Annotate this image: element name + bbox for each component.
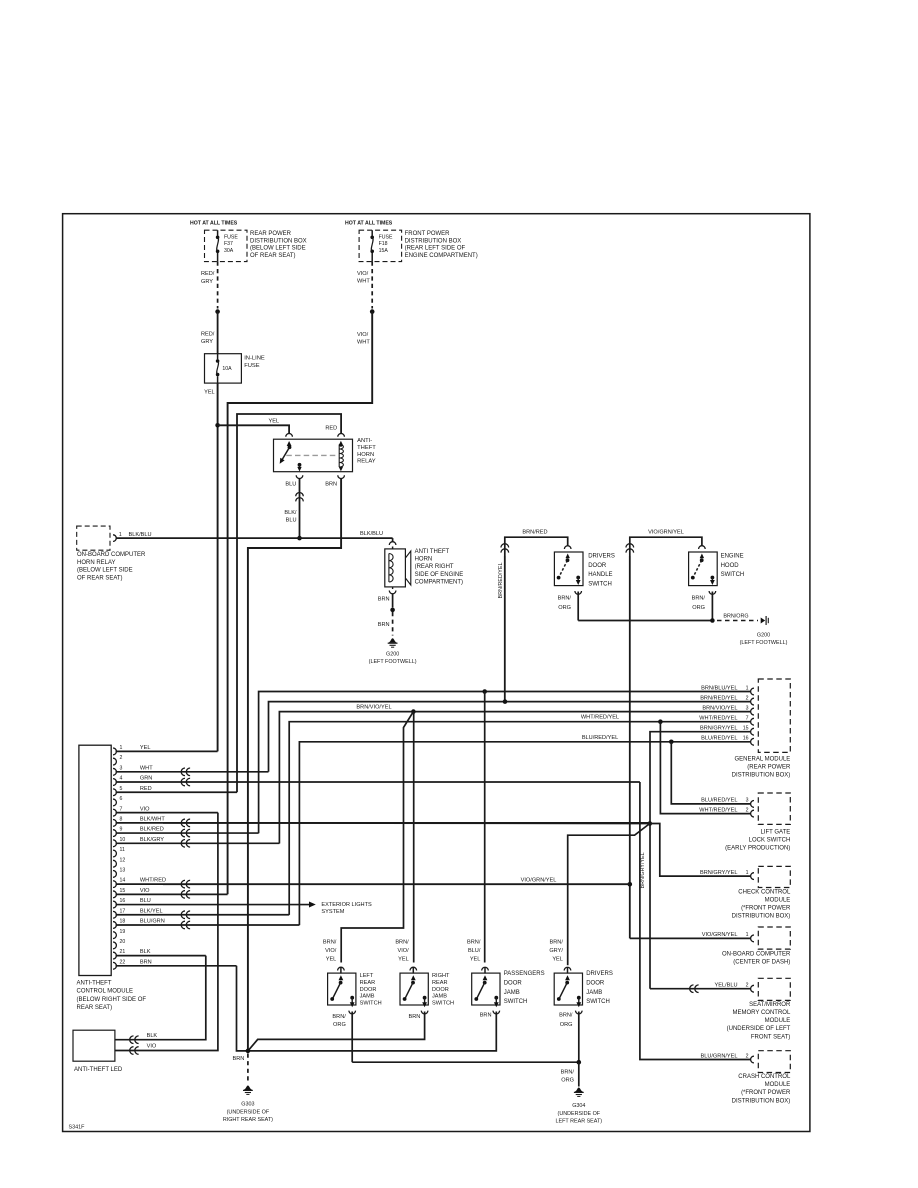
svg-text:SWITCH: SWITCH <box>360 1001 382 1007</box>
svg-text:VIO/GRN/YEL: VIO/GRN/YEL <box>521 877 557 883</box>
svg-text:(UNDERSIDE OF: (UNDERSIDE OF <box>558 1111 601 1117</box>
svg-text:BLK: BLK <box>140 949 151 955</box>
svg-text:BRN/: BRN/ <box>559 1013 573 1019</box>
svg-text:SWITCH: SWITCH <box>588 581 612 587</box>
svg-text:YEL/BLU: YEL/BLU <box>714 983 737 989</box>
svg-text:BRN/VIO/YEL: BRN/VIO/YEL <box>356 705 391 711</box>
svg-text:VIO/: VIO/ <box>357 271 369 277</box>
svg-text:FUSE: FUSE <box>244 363 260 369</box>
svg-text:(BELOW LEFT SIDE: (BELOW LEFT SIDE <box>77 568 133 574</box>
svg-text:19: 19 <box>120 929 126 935</box>
svg-text:CONTROL MODULE: CONTROL MODULE <box>77 989 133 995</box>
svg-text:BRN: BRN <box>378 622 390 628</box>
svg-text:BLK/BLU: BLK/BLU <box>360 531 383 537</box>
svg-text:BRN/: BRN/ <box>332 1014 346 1020</box>
svg-text:BRN: BRN <box>140 959 152 965</box>
svg-text:GENERAL MODULE: GENERAL MODULE <box>735 757 791 763</box>
svg-text:RED/: RED/ <box>201 332 215 338</box>
svg-text:CHECK CONTROL: CHECK CONTROL <box>738 889 791 895</box>
svg-text:1: 1 <box>746 870 749 876</box>
svg-text:VIO: VIO <box>147 1043 157 1049</box>
svg-text:OF REAR SEAT): OF REAR SEAT) <box>250 253 296 259</box>
svg-text:BRN/: BRN/ <box>323 939 337 945</box>
svg-text:HORN: HORN <box>357 452 374 458</box>
svg-text:YEL: YEL <box>204 390 215 396</box>
svg-text:BLU: BLU <box>286 518 297 524</box>
svg-text:YEL: YEL <box>269 418 280 424</box>
svg-text:JAMB: JAMB <box>504 990 520 996</box>
svg-text:F37: F37 <box>224 241 233 247</box>
svg-text:REAR: REAR <box>360 980 376 986</box>
svg-text:EXTERIOR LIGHTS: EXTERIOR LIGHTS <box>321 902 372 908</box>
svg-text:DISTRIBUTION BOX: DISTRIBUTION BOX <box>405 238 462 244</box>
svg-text:DOOR: DOOR <box>586 981 605 987</box>
svg-text:16: 16 <box>120 898 126 904</box>
svg-text:17: 17 <box>120 908 126 914</box>
svg-text:OF REAR SEAT): OF REAR SEAT) <box>77 575 123 581</box>
svg-text:BRN/: BRN/ <box>561 1070 575 1076</box>
svg-text:BLU/RED/YEL: BLU/RED/YEL <box>701 798 737 804</box>
svg-text:CRASH CONTROL: CRASH CONTROL <box>738 1074 791 1080</box>
svg-text:ENGINE COMPARTMENT): ENGINE COMPARTMENT) <box>405 253 478 259</box>
svg-text:ENGINE: ENGINE <box>721 554 744 560</box>
svg-text:ANTI-THEFT: ANTI-THEFT <box>77 981 112 987</box>
svg-text:1: 1 <box>746 685 749 691</box>
svg-text:VIO/: VIO/ <box>357 332 369 338</box>
svg-text:4: 4 <box>120 776 123 782</box>
svg-text:BRN/: BRN/ <box>395 939 409 945</box>
svg-text:BLU/GRN/YEL: BLU/GRN/YEL <box>701 1053 738 1059</box>
svg-text:DRIVERS: DRIVERS <box>586 971 613 977</box>
svg-text:12: 12 <box>120 857 126 863</box>
svg-text:BRN: BRN <box>408 1014 420 1020</box>
svg-text:IN-LINE: IN-LINE <box>244 356 265 362</box>
svg-text:DISTRIBUTION BOX): DISTRIBUTION BOX) <box>732 914 791 920</box>
svg-text:GRN: GRN <box>140 776 152 782</box>
svg-text:GRY: GRY <box>201 279 213 285</box>
svg-text:FRONT POWER: FRONT POWER <box>405 231 451 237</box>
svg-text:13: 13 <box>120 868 126 874</box>
svg-text:BLU/RED/YEL: BLU/RED/YEL <box>582 735 618 741</box>
svg-text:G200: G200 <box>386 652 399 658</box>
svg-text:S341F: S341F <box>69 1125 86 1131</box>
svg-text:HOOD: HOOD <box>721 563 740 569</box>
svg-text:DISTRIBUTION BOX): DISTRIBUTION BOX) <box>732 773 791 779</box>
svg-text:HANDLE: HANDLE <box>588 572 612 578</box>
svg-text:DOOR: DOOR <box>504 981 523 987</box>
svg-text:DISTRIBUTION BOX): DISTRIBUTION BOX) <box>732 1098 791 1104</box>
svg-text:1: 1 <box>746 932 749 938</box>
svg-text:2: 2 <box>746 1053 749 1059</box>
svg-text:JAMB: JAMB <box>586 990 602 996</box>
svg-text:BLU/: BLU/ <box>468 948 481 954</box>
svg-text:DRIVERS: DRIVERS <box>588 554 615 560</box>
svg-text:YEL: YEL <box>326 957 337 963</box>
svg-text:2: 2 <box>120 755 123 761</box>
svg-text:LIFT GATE: LIFT GATE <box>761 829 791 835</box>
svg-text:BRN/RED/YEL: BRN/RED/YEL <box>498 563 504 599</box>
svg-text:MODULE: MODULE <box>765 1082 791 1088</box>
svg-text:FUSE: FUSE <box>224 235 238 241</box>
svg-text:(LEFT FOOTWELL): (LEFT FOOTWELL) <box>369 659 417 665</box>
svg-text:F18: F18 <box>379 241 388 247</box>
svg-text:ORG: ORG <box>561 1078 574 1084</box>
svg-text:LEFT REAR SEAT): LEFT REAR SEAT) <box>556 1118 603 1124</box>
svg-text:WHT: WHT <box>357 279 370 285</box>
svg-text:DISTRIBUTION BOX: DISTRIBUTION BOX <box>250 238 307 244</box>
svg-text:9: 9 <box>120 827 123 833</box>
svg-text:GRY/: GRY/ <box>549 948 563 954</box>
svg-text:SEAT/MIRROR: SEAT/MIRROR <box>749 1002 791 1008</box>
svg-text:10: 10 <box>120 837 126 843</box>
svg-text:YEL: YEL <box>552 957 563 963</box>
svg-text:YEL: YEL <box>398 957 409 963</box>
svg-text:BRN: BRN <box>480 1013 492 1019</box>
svg-text:HOT AT ALL TIMES: HOT AT ALL TIMES <box>190 221 238 227</box>
svg-text:ANTI-: ANTI- <box>357 438 372 444</box>
svg-text:BRN: BRN <box>232 1056 244 1062</box>
svg-text:15: 15 <box>120 888 126 894</box>
svg-text:10A: 10A <box>222 366 232 372</box>
svg-text:RED: RED <box>140 786 152 792</box>
svg-text:ORG: ORG <box>333 1022 346 1028</box>
svg-text:ON-BOARD COMPUTER: ON-BOARD COMPUTER <box>722 952 791 958</box>
svg-text:1: 1 <box>119 532 122 538</box>
svg-text:JAMB: JAMB <box>432 994 447 1000</box>
svg-text:G304: G304 <box>572 1103 585 1109</box>
svg-text:WHT/RED: WHT/RED <box>140 878 166 884</box>
svg-text:MEMORY CONTROL: MEMORY CONTROL <box>733 1010 791 1016</box>
svg-text:(CENTER OF DASH): (CENTER OF DASH) <box>733 960 790 966</box>
svg-text:BRN/: BRN/ <box>692 596 706 602</box>
svg-text:(BELOW RIGHT SIDE OF: (BELOW RIGHT SIDE OF <box>77 997 147 1003</box>
svg-text:8: 8 <box>120 816 123 822</box>
svg-text:(BELOW LEFT SIDE: (BELOW LEFT SIDE <box>250 246 306 252</box>
svg-text:BRN: BRN <box>378 597 390 603</box>
svg-text:(UNDERSIDE OF: (UNDERSIDE OF <box>227 1109 270 1115</box>
svg-text:G200: G200 <box>757 633 770 639</box>
svg-text:7: 7 <box>120 806 123 812</box>
svg-text:(UNDERSIDE OF LEFT: (UNDERSIDE OF LEFT <box>727 1026 791 1032</box>
svg-text:BLU: BLU <box>285 482 296 488</box>
svg-text:RED: RED <box>325 425 337 431</box>
svg-text:PASSENGERS: PASSENGERS <box>504 971 545 977</box>
svg-text:RIGHT REAR SEAT): RIGHT REAR SEAT) <box>223 1117 273 1123</box>
svg-text:REAR POWER: REAR POWER <box>250 231 292 237</box>
svg-text:HOT AT ALL TIMES: HOT AT ALL TIMES <box>345 221 393 227</box>
svg-text:DOOR: DOOR <box>432 987 449 993</box>
svg-text:JAMB: JAMB <box>360 994 375 1000</box>
svg-text:3: 3 <box>746 705 749 711</box>
svg-text:VIO: VIO <box>140 806 150 812</box>
svg-text:15A: 15A <box>379 248 389 254</box>
svg-text:BLK/GRY: BLK/GRY <box>140 837 164 843</box>
svg-text:ORG: ORG <box>560 1022 573 1028</box>
svg-text:BLK/RED: BLK/RED <box>140 827 164 833</box>
svg-text:ORG: ORG <box>558 605 571 611</box>
svg-text:BRN/BLU/YEL: BRN/BLU/YEL <box>701 685 737 691</box>
svg-text:BRN/GRY/YEL: BRN/GRY/YEL <box>700 870 738 876</box>
svg-text:22: 22 <box>120 959 126 965</box>
svg-text:THEFT: THEFT <box>357 445 376 451</box>
svg-text:BLK/: BLK/ <box>284 510 297 516</box>
svg-text:(LEFT FOOTWELL): (LEFT FOOTWELL) <box>740 640 788 646</box>
svg-text:BRN/: BRN/ <box>550 939 564 945</box>
svg-text:BLU/GRN: BLU/GRN <box>140 919 165 925</box>
svg-text:BLK: BLK <box>147 1033 158 1039</box>
svg-text:SWITCH: SWITCH <box>586 999 610 1005</box>
svg-text:3: 3 <box>120 765 123 771</box>
svg-text:ORG: ORG <box>692 605 705 611</box>
svg-text:HORN RELAY: HORN RELAY <box>77 560 116 566</box>
svg-text:FRONT SEAT): FRONT SEAT) <box>751 1034 790 1040</box>
svg-text:1: 1 <box>120 745 123 751</box>
svg-text:ANTI THEFT: ANTI THEFT <box>415 549 450 555</box>
svg-text:BRN/RED: BRN/RED <box>522 530 547 536</box>
svg-text:FUSE: FUSE <box>379 235 393 241</box>
svg-text:ON-BOARD COMPUTER: ON-BOARD COMPUTER <box>77 552 146 558</box>
svg-text:REAR: REAR <box>432 980 448 986</box>
svg-text:3: 3 <box>746 798 749 804</box>
svg-text:(EARLY PRODUCTION): (EARLY PRODUCTION) <box>725 846 790 852</box>
svg-text:BRN/ORG: BRN/ORG <box>723 613 748 619</box>
svg-text:REAR SEAT): REAR SEAT) <box>77 1005 113 1011</box>
svg-text:BRN/GRY/YEL: BRN/GRY/YEL <box>640 852 646 888</box>
svg-text:BLU: BLU <box>140 898 151 904</box>
svg-text:BRN: BRN <box>325 482 337 488</box>
svg-text:16: 16 <box>743 736 749 742</box>
svg-text:BLK/BLU: BLK/BLU <box>129 532 152 538</box>
svg-text:WHT: WHT <box>357 339 370 345</box>
svg-text:6: 6 <box>120 796 123 802</box>
svg-text:HORN: HORN <box>415 557 433 563</box>
svg-text:VIO/GRN/YEL: VIO/GRN/YEL <box>648 530 684 536</box>
svg-text:ANTI-THEFT LED: ANTI-THEFT LED <box>74 1067 123 1073</box>
svg-text:2: 2 <box>746 807 749 813</box>
svg-text:LEFT: LEFT <box>360 973 374 979</box>
svg-text:BRN/: BRN/ <box>558 596 572 602</box>
svg-text:VIO/GRN/YEL: VIO/GRN/YEL <box>702 932 738 938</box>
svg-text:BRN/GRY/YEL: BRN/GRY/YEL <box>700 726 738 732</box>
svg-text:(REAR RIGHT: (REAR RIGHT <box>415 564 454 570</box>
svg-text:WHT/RED/YEL: WHT/RED/YEL <box>699 807 737 813</box>
svg-text:BLU/RED/YEL: BLU/RED/YEL <box>701 736 737 742</box>
svg-text:SIDE OF ENGINE: SIDE OF ENGINE <box>415 572 464 578</box>
svg-text:RIGHT: RIGHT <box>432 973 450 979</box>
svg-text:18: 18 <box>120 919 126 925</box>
svg-text:BRN/: BRN/ <box>467 939 481 945</box>
svg-text:DOOR: DOOR <box>360 987 377 993</box>
svg-text:BRN/RED/YEL: BRN/RED/YEL <box>700 695 737 701</box>
svg-text:COMPARTMENT): COMPARTMENT) <box>415 579 463 585</box>
svg-text:SYSTEM: SYSTEM <box>321 909 344 915</box>
svg-text:(REAR POWER: (REAR POWER <box>747 765 791 771</box>
svg-text:WHT: WHT <box>140 765 153 771</box>
svg-text:WHT/RED/YEL: WHT/RED/YEL <box>699 716 737 722</box>
svg-text:LOCK SWITCH: LOCK SWITCH <box>749 838 791 844</box>
svg-text:21: 21 <box>120 949 126 955</box>
svg-text:BRN/VIO/YEL: BRN/VIO/YEL <box>702 705 737 711</box>
svg-text:SWITCH: SWITCH <box>504 999 528 1005</box>
svg-text:SWITCH: SWITCH <box>721 572 745 578</box>
svg-text:(REAR LEFT SIDE OF: (REAR LEFT SIDE OF <box>405 246 466 252</box>
svg-text:(*FRONT POWER: (*FRONT POWER <box>741 1090 791 1096</box>
svg-text:15: 15 <box>743 726 749 732</box>
svg-text:VIO: VIO <box>140 888 150 894</box>
svg-text:SWITCH: SWITCH <box>432 1001 454 1007</box>
svg-text:BLK/YEL: BLK/YEL <box>140 908 163 914</box>
svg-text:WHT/RED/YEL: WHT/RED/YEL <box>581 715 619 721</box>
svg-text:5: 5 <box>120 786 123 792</box>
svg-text:YEL: YEL <box>140 745 151 751</box>
svg-text:RED/: RED/ <box>201 271 215 277</box>
svg-text:BLK/WHT: BLK/WHT <box>140 816 165 822</box>
svg-text:2: 2 <box>746 983 749 989</box>
svg-text:20: 20 <box>120 939 126 945</box>
svg-text:GRY: GRY <box>201 339 213 345</box>
svg-text:RELAY: RELAY <box>357 459 376 465</box>
svg-text:MODULE: MODULE <box>765 897 791 903</box>
svg-text:30A: 30A <box>224 248 234 254</box>
svg-text:VIO/: VIO/ <box>397 948 409 954</box>
svg-text:11: 11 <box>120 847 125 853</box>
svg-text:7: 7 <box>746 716 749 722</box>
svg-text:2: 2 <box>746 695 749 701</box>
svg-text:DOOR: DOOR <box>588 563 607 569</box>
svg-text:14: 14 <box>120 878 126 884</box>
svg-text:MODULE: MODULE <box>765 1018 791 1024</box>
svg-text:YEL: YEL <box>470 957 481 963</box>
svg-text:(*FRONT POWER: (*FRONT POWER <box>741 906 791 912</box>
svg-text:VIO/: VIO/ <box>325 948 337 954</box>
svg-text:G303: G303 <box>241 1102 254 1108</box>
